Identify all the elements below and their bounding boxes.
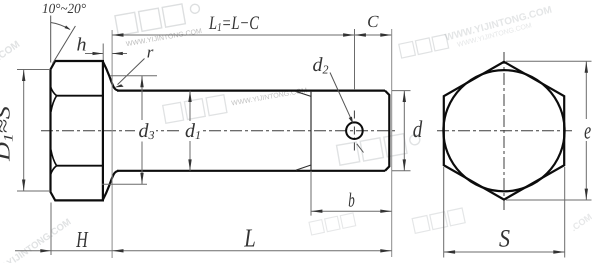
S arrow left — [444, 250, 455, 253]
H/L dimension line — [15, 250, 392, 252]
H right / L left arrow (pointing left) — [112, 249, 123, 252]
svg-text:D1≈S: D1≈S — [0, 106, 16, 162]
S extension line right — [564, 167, 566, 258]
d3 extension line top — [110, 75, 157, 77]
watermark logo center — [337, 131, 422, 165]
L arrow right (pointing right) — [380, 249, 391, 252]
S dimension line — [444, 251, 565, 253]
L1 / C dimension line — [112, 34, 392, 36]
label d1 mask — [181, 123, 200, 140]
svg-text:L: L — [243, 224, 255, 253]
hole axis center line — [353, 111, 355, 154]
d dimension line — [403, 91, 405, 171]
watermark right-edge lower — [569, 212, 594, 234]
svg-text:.COM: .COM — [569, 212, 594, 234]
watermark left edge — [0, 39, 22, 67]
d extension line top — [392, 90, 411, 92]
head face line upper — [57, 95, 103, 97]
b extension line left — [310, 171, 312, 216]
washer-face neck curve bottom — [103, 171, 119, 200]
h extension line left — [102, 44, 104, 61]
C arrow right — [380, 33, 391, 36]
watermark top-right — [444, 5, 556, 52]
head chamfer circle — [443, 70, 564, 191]
watermark logo below-S — [412, 208, 465, 233]
svg-text:S: S — [499, 225, 510, 252]
h extension line right (long, shared with L1/H) — [111, 30, 113, 258]
d3 arrow up — [140, 76, 143, 87]
head face line lower — [57, 165, 103, 167]
h dimension line right part — [112, 53, 127, 55]
shared extension line at bolt end — [391, 29, 393, 257]
svg-text:H: H — [76, 227, 89, 252]
C arrow right — [355, 33, 366, 36]
S extension line left — [443, 167, 445, 258]
d2 leader tail through hole — [357, 144, 364, 153]
svg-text:d2: d2 — [313, 54, 329, 77]
watermark logo mid-left — [163, 80, 309, 123]
watermark bottom-left — [0, 217, 73, 263]
h arrow left (outside, pointing right) — [93, 52, 104, 55]
d1 dimension line upper — [189, 91, 191, 121]
e extension line top — [506, 60, 592, 62]
hexagon head outline — [444, 62, 564, 200]
head chamfer arc mid-lower — [51, 150, 57, 166]
d2 leader line — [330, 73, 352, 121]
svg-text:WWW.YIJINTONG.COM: WWW.YIJINTONG.COM — [0, 217, 73, 263]
h arrow right (outside, pointing left) — [112, 52, 123, 55]
shank bottom edge — [117, 170, 385, 172]
d3 extension line bottom — [102, 183, 147, 185]
label d3 mask — [135, 122, 156, 140]
watermark logo top-center — [115, 1, 204, 49]
end face with chamfers — [385, 91, 389, 171]
S arrow right — [553, 250, 564, 253]
shank top edge — [117, 89, 385, 91]
d arrow up — [403, 91, 406, 102]
L1 arrow right / C arrow left — [343, 33, 354, 36]
b arrow left — [311, 210, 322, 213]
angle arc — [51, 23, 70, 30]
H arrow left (outside, pointing right) — [40, 249, 51, 252]
svg-text:d: d — [413, 117, 423, 143]
head chamfer arc bottom-face — [51, 166, 57, 175]
b arrow right — [380, 210, 391, 213]
bolt head outline — [51, 61, 103, 200]
d1 arrow up — [188, 91, 191, 102]
d1 dimension line lower — [189, 141, 191, 171]
d2 leader arrow — [349, 117, 354, 124]
washer-face neck curve top — [103, 62, 119, 91]
angle slant line — [53, 26, 76, 64]
e extension line bottom — [506, 199, 592, 201]
d1 arrow down — [188, 159, 191, 170]
D1 extension line bottom — [17, 190, 50, 192]
watermark logo mid-bottom — [309, 213, 356, 235]
svg-text:r: r — [147, 43, 154, 62]
C extension line left — [354, 29, 356, 90]
head chamfer arc top-face — [51, 87, 57, 96]
right view vertical axis — [503, 52, 505, 210]
b dimension line — [311, 210, 392, 212]
angle arc arrowhead — [65, 26, 71, 30]
d3 arrow down — [140, 173, 143, 184]
svg-text:C: C — [367, 12, 379, 31]
main axis center line — [41, 130, 397, 132]
label e mask — [583, 124, 593, 141]
e arrow down — [585, 189, 588, 200]
r leader line — [118, 59, 145, 85]
svg-text:b: b — [348, 189, 355, 211]
h dimension line left part — [85, 53, 103, 55]
svg-text:L1=L−C: L1=L−C — [208, 13, 259, 34]
D1 dimension line — [23, 70, 25, 192]
e dimension line lower — [585, 140, 587, 200]
svg-text:10°~20°: 10°~20° — [42, 2, 86, 17]
svg-text:e: e — [584, 118, 591, 144]
D1 extension line top — [17, 69, 50, 71]
split pin hole d2 — [346, 122, 363, 139]
d arrow down — [403, 159, 406, 170]
right view horizontal axis — [437, 130, 572, 132]
D1 arrow up — [22, 70, 25, 82]
svg-text:WWW.YIJINTONG.COM: WWW.YIJINTONG.COM — [126, 28, 203, 48]
L1 arrow left — [112, 33, 123, 36]
e dimension line upper — [585, 61, 587, 119]
d extension line bottom — [392, 170, 411, 172]
svg-text:h: h — [77, 35, 87, 56]
watermark logo right-upper — [399, 34, 449, 58]
D1 arrow down — [22, 180, 25, 192]
thread boundary line — [310, 91, 312, 171]
angle vertex vertical line — [50, 16, 52, 63]
d3 dimension line lower — [141, 142, 143, 185]
svg-text:G.COM: G.COM — [0, 39, 22, 67]
H extension line left — [50, 203, 52, 256]
thread runout top — [296, 91, 312, 96]
e arrow up — [585, 61, 588, 72]
r leader arrow — [115, 84, 124, 87]
thread runout bottom — [296, 165, 311, 170]
d3 dimension line upper — [141, 76, 143, 120]
head chamfer arc mid-upper — [51, 96, 57, 112]
